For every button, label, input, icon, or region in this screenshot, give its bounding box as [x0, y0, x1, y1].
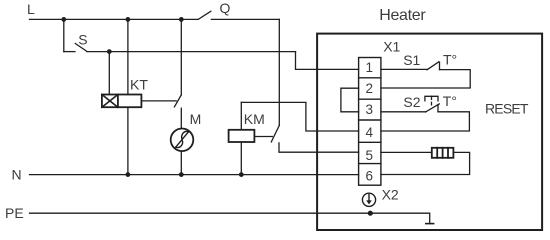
svg-text:T°: T° [443, 52, 457, 68]
thermostat S1 blade [427, 62, 439, 70]
svg-text:6: 6 [366, 169, 374, 184]
wire S branch drop [63, 19, 65, 51]
svg-text:4: 4 [366, 125, 374, 140]
svg-text:Heater: Heater [379, 7, 426, 24]
svg-text:N: N [12, 166, 22, 182]
wire M to N [180, 151, 182, 175]
wire S stub [64, 51, 75, 53]
wire L line left [30, 18, 199, 20]
svg-text:5: 5 [366, 148, 374, 163]
wire Q output drop [278, 19, 280, 125]
wire element to terminal 6 [381, 152, 470, 174]
wire S line to terminal 1 [296, 52, 359, 70]
terminal X2 earth symbol [362, 193, 375, 206]
wire PE line [30, 213, 430, 223]
contactor coil KM [229, 130, 255, 142]
contact KT blade [174, 95, 181, 107]
node junction dot L-contact [179, 17, 184, 22]
node junction dot L-KT [126, 17, 131, 22]
wire terminal 5 to element [381, 151, 432, 153]
svg-text:2: 2 [366, 81, 374, 96]
svg-text:S2: S2 [403, 94, 420, 110]
svg-text:KM: KM [244, 111, 265, 127]
svg-text:RESET: RESET [485, 100, 529, 116]
contact KM bottom to terminal 5 [279, 143, 359, 152]
heater enclosure box [317, 34, 542, 230]
wire KM coil to contact [254, 136, 272, 138]
wire terminal 1 to S1 [381, 68, 427, 70]
node junction dot L-S [61, 17, 66, 22]
svg-text:KT: KT [130, 77, 148, 93]
svg-text:S1: S1 [403, 52, 420, 68]
wire KT coil to contact [141, 100, 176, 102]
terminal block X1 outline [359, 58, 381, 186]
svg-text:X1: X1 [383, 38, 400, 54]
wire KM coil feed [240, 102, 242, 129]
svg-text:T°: T° [443, 93, 457, 109]
svg-text:3: 3 [366, 102, 374, 117]
wire S line [87, 51, 296, 53]
node junction dot PE-X2 [368, 211, 373, 216]
node junction dot KM-N [239, 172, 244, 177]
svg-text:PE: PE [5, 205, 24, 221]
motor fan M [171, 129, 194, 152]
wire N line [30, 174, 359, 176]
wire jumper terminal 2 to 3 [341, 88, 359, 112]
thermostat S2 blade [426, 104, 440, 112]
thermostat S2 fixed contact step [437, 105, 439, 112]
node junction dot M-N [179, 172, 184, 177]
switch Q blade [198, 11, 211, 19]
svg-text:L: L [27, 1, 35, 17]
thermostat S2 latch link [431, 96, 433, 105]
wire terminal 3 to S2 [381, 111, 426, 113]
svg-text:X2: X2 [382, 187, 399, 203]
relay coil KT [102, 95, 141, 108]
svg-text:M: M [190, 111, 202, 127]
wire KT coil feed [108, 52, 110, 95]
contact KT bottom terminal [180, 108, 182, 128]
thermostat S2 latch bracket [425, 96, 438, 101]
wire KT box to N [127, 107, 129, 174]
node junction dot S-KT [107, 49, 112, 54]
wire S2 to terminal 4 [381, 112, 470, 131]
wire S1 to terminal 2 [381, 70, 470, 88]
svg-text:S: S [78, 32, 87, 48]
node junction dot KT-N [126, 172, 131, 177]
ground chassis tick [426, 223, 434, 225]
contact KT top terminal [180, 19, 182, 95]
wire KM top to terminal 4 [241, 102, 358, 131]
thermostat S1 fixed contact step [439, 62, 441, 70]
svg-text:1: 1 [366, 60, 374, 75]
wire L line right of Q [211, 18, 279, 20]
switch S blade [75, 44, 87, 52]
wire KM coil to N [240, 142, 242, 175]
svg-text:Q: Q [220, 0, 231, 16]
heating element EK [432, 148, 454, 158]
wire L to KT box [127, 19, 129, 94]
contact KM blade [271, 125, 279, 141]
